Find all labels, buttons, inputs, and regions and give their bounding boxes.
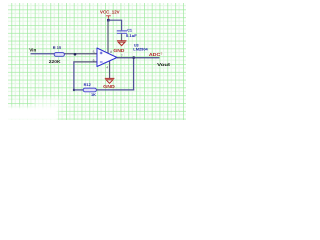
capacitor C1 plates	[117, 31, 127, 33]
svg-text:GND: GND	[103, 84, 115, 89]
svg-text:4: 4	[106, 66, 108, 70]
svg-text:1K: 1K	[91, 92, 96, 97]
svg-text:Vout: Vout	[157, 62, 171, 67]
junction dot C on output	[132, 56, 135, 59]
wire op-amp inverting input horizontal	[73, 61, 97, 63]
svg-text:Vin: Vin	[29, 47, 36, 52]
svg-text:?: ?	[160, 52, 162, 56]
op-amp U3 V- pin wire	[109, 61, 111, 78]
junction dot A	[74, 53, 77, 56]
svg-text:8: 8	[110, 50, 112, 54]
svg-text:220K: 220K	[49, 59, 61, 64]
wire R12 to feedback vertical	[96, 89, 134, 91]
op-amp plus sign	[100, 52, 103, 55]
wire to R12	[73, 89, 83, 91]
sheet background	[0, 0, 186, 120]
wire R10 to op-amp +in	[64, 53, 97, 55]
junction square VCC	[107, 19, 110, 22]
white fade bottom-left	[0, 107, 58, 121]
op-amp minus sign	[100, 61, 103, 63]
svg-text:6: 6	[93, 58, 95, 62]
op-amp U3 body	[97, 48, 117, 67]
ground symbol for op-amp	[105, 78, 115, 83]
svg-text:R 10: R 10	[53, 45, 61, 50]
svg-text:VCC_12V: VCC_12V	[100, 10, 120, 15]
svg-text:5: 5	[93, 50, 95, 54]
op-amp U3 V+ pin wire	[107, 20, 109, 53]
svg-text:0.1uF: 0.1uF	[126, 33, 138, 38]
feedback vertical wire	[133, 58, 135, 91]
junction dot B	[73, 89, 75, 91]
wire Vin to R10	[31, 53, 55, 55]
svg-text:R12: R12	[84, 82, 92, 87]
wire inverting input vertical leg	[73, 61, 75, 90]
wire C1 to ground	[121, 34, 123, 41]
resistor R12 body	[83, 88, 96, 92]
wire VCC to C1	[108, 20, 122, 30]
svg-text:C1: C1	[127, 29, 132, 33]
svg-text:LM2904: LM2904	[133, 48, 148, 52]
resistor R10 body	[54, 53, 64, 57]
power port VCC bar	[106, 16, 111, 19]
ground symbol for C1	[117, 41, 127, 46]
svg-text:GND: GND	[113, 48, 124, 53]
output wire	[117, 57, 160, 59]
